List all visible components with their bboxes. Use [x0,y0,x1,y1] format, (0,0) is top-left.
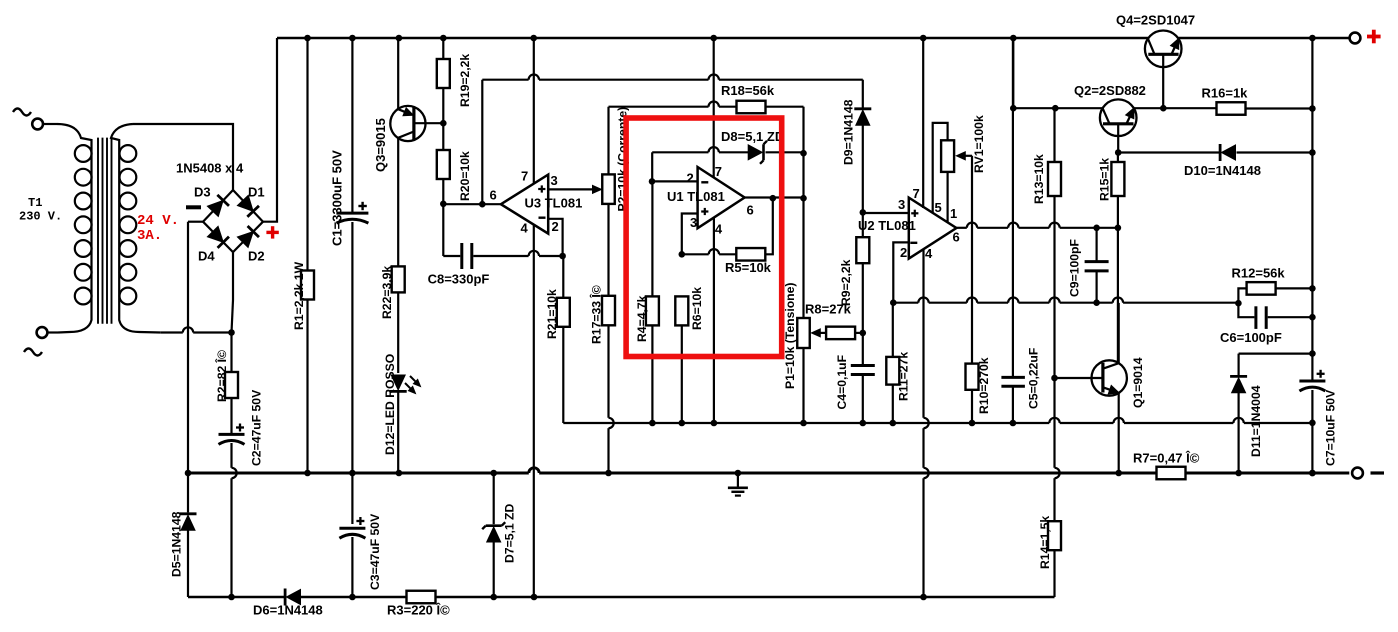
junction D10 / + rail [1309,149,1316,156]
label R15=1k [1098,158,1112,201]
junction 0V rail / Q1 emitter [1115,470,1122,477]
bridge minus mark [186,205,201,209]
capacitor C1 [336,38,368,473]
svg-text:4: 4 [715,222,723,237]
U3 pin 2 number [552,219,559,234]
diode D1 (bridge top-right) [233,190,263,222]
svg-text:5: 5 [935,200,942,215]
junction 0V rail / D7 [490,470,497,477]
junction C7 / sense wire [1309,420,1316,427]
label Q2=2SD882 [1074,83,1146,98]
svg-text:R18=56k: R18=56k [721,83,775,98]
wire U1 pin2 [652,180,698,182]
junction top rail / R19 [440,35,447,42]
ground symbol [728,473,748,496]
wire D8 left run [652,147,748,181]
label R20=10k [458,151,472,201]
label R8=27k [805,302,852,317]
U2 pin 6 number [953,230,960,245]
U1 pin 3 number [690,215,697,230]
transistor Q3 (9015) [390,38,443,266]
transistor Q4 (2SD1047) [1145,31,1182,109]
svg-text:1: 1 [950,206,957,221]
diode D6 (1N4148) [285,589,300,606]
junction top rail / R1 [304,35,311,42]
junction Q2 base / R15 [1115,149,1122,156]
label D7=5,1 ZD [503,504,517,563]
junction C6 / + rail [1309,314,1316,321]
junction sense rail / C5 [1010,420,1017,427]
label R14=1,5k [1038,516,1052,569]
capacitor C2 [219,424,245,598]
resistor R21 [557,256,570,423]
U2 pin 3 number [898,197,905,212]
wire secondary-top to bridge top [133,124,233,190]
wire P2 top to R18 left [609,101,737,106]
U1 pin 6 number [747,203,754,218]
svg-text:D3: D3 [194,185,211,200]
junction 0V rail / C7 [1309,470,1316,477]
label R19=2,2k [458,54,472,107]
label R4=4,7k [635,295,649,342]
junction top rail / Q2 line [1010,35,1017,42]
label D2 [248,249,265,264]
junction negative rail / C3 [349,594,356,601]
svg-text:C5=0,22uF: C5=0,22uF [1027,348,1041,409]
svg-text:D4: D4 [198,249,215,264]
capacitor C5 [1001,38,1025,423]
junction top rail / output line [1309,35,1316,42]
capacitor C6 [1238,303,1312,329]
label RV1=100k [972,115,986,173]
U2 pin 5 number [935,200,942,215]
transformer T1 secondary winding [111,124,161,333]
wire bridge left corner down to 0V rail [188,222,203,473]
svg-text:R2=82 Î©: R2=82 Î© [214,350,229,402]
junction 0V rail / C3 [349,470,356,477]
label C5=0,22uF [1027,348,1041,409]
junction D8 / feedback line [800,150,807,157]
junction R8 / R9 / C4 [860,330,867,337]
op-amp U3 (TL081, pointing left) [501,175,548,234]
resistor R13 [1048,108,1061,378]
label C7=10uF 50V [1324,389,1338,466]
svg-text:R13=10k: R13=10k [1032,154,1046,204]
svg-text:R11=27k: R11=27k [897,352,911,401]
svg-text:C1=3300uF 50V: C1=3300uF 50V [330,150,345,246]
label 230 V. [19,210,62,224]
U3 pin 6 number [490,188,497,203]
svg-text:D7=5,1 ZD: D7=5,1 ZD [503,504,517,563]
junction U2 out / C9 [1093,225,1100,232]
capacitor C7 [1299,370,1325,473]
wire U3 output to D9 (top run) [482,74,863,108]
junction sense rail / P1 [800,420,807,427]
capacitor C3 [339,473,365,597]
svg-text:C7=10uF 50V: C7=10uF 50V [1324,389,1338,466]
junction feedback / R12 / C6 [1235,300,1242,307]
label C8=330pF [428,272,490,287]
junction secondary-bottom / bridge [228,329,235,336]
input terminal bottom (AC) [24,327,58,355]
svg-text:3A.: 3A. [137,228,162,244]
wire U3 pin3 to P2 wiper [548,185,601,193]
capacitor C8 [443,243,562,269]
wire Q2 emitter to Q4 base node [1134,107,1217,109]
svg-text:R5=10k: R5=10k [725,260,772,275]
label R1=2,2k 1W [292,261,306,330]
resistor R17 [602,296,615,473]
label R3=220 Î© [387,603,450,618]
wire Q2 collector rail [1013,107,1102,109]
wire 0V rail [188,468,1349,473]
wire U2 pin5 bracket [933,123,948,213]
svg-text:R10=270k: R10=270k [977,357,991,414]
label D10=1N4148 [1184,163,1261,178]
junction R5 / pin3 branch [679,251,686,258]
junction C9 / feedback wire [1093,299,1100,306]
resistor R8 [811,327,863,340]
label R22=3,9k [380,266,394,319]
svg-text:C3=47uF 50V: C3=47uF 50V [368,513,382,590]
svg-text:C2=47uF 50V: C2=47uF 50V [250,389,264,466]
junction top rail / U1 pin7 [710,35,717,42]
diode D3 (bridge top-left) [203,190,233,222]
label D3 [194,185,211,200]
diode D2 (bridge bottom-right) [233,222,263,252]
wire D11 branch [1239,354,1313,375]
op-amp U2 (TL081) [909,198,957,259]
wire Q2 base run [1118,151,1220,153]
label R9=2,2k [839,259,853,306]
label R17=33 Î© [589,285,604,344]
svg-text:D8=5,1 ZD: D8=5,1 ZD [721,129,784,144]
junction D9 / R9 / U2 pin3 [860,209,867,216]
wire top rail (+ supply) [277,37,1349,40]
input terminal top (AC) [13,109,57,130]
label D12=LED ROSSO [383,354,397,455]
label 3A. (red) [137,228,162,244]
svg-text:4: 4 [521,221,529,236]
label R10=270k [977,357,991,414]
label D8=5,1 ZD [721,129,784,144]
wire U1 pin7 to top rail [713,38,715,178]
label Q4=2SD1047 [1116,13,1195,28]
wire negative rail (bottom) [188,596,1055,599]
junction U1 out / P1 feedback [800,195,807,202]
junction U2 out / R15 [1115,225,1122,232]
junction Q4 base / Q2 emitter / R16 [1160,105,1167,112]
transformer T1 primary winding [57,124,92,333]
zener diode D8 (5,1 ZD) [748,141,803,164]
junction C7 line / 0V rail [1309,470,1316,477]
junction negative rail / C2 [228,594,235,601]
svg-text:24 V.: 24 V. [137,213,179,229]
svg-text:R12=56k: R12=56k [1232,266,1286,281]
label D6=1N4148 [253,603,323,618]
potentiometer P1 (Tensione) [797,318,810,423]
transistor Q1 (9014) [1055,360,1127,395]
diode D4 (bridge bottom-left) [203,222,233,252]
junction Q3 base / R19 / R20 [440,120,447,127]
junction sense rail / R6 [679,420,686,427]
diode D5 (1N4148) [180,473,197,597]
svg-text:2: 2 [687,171,694,186]
junction negative rail / U2 pin4 [920,594,927,601]
U2 pin 2 number [900,245,907,260]
label R2=82 Î© [214,350,229,402]
svg-text:D1: D1 [248,185,265,200]
output terminal - (bottom right) [1352,468,1384,479]
U3 pin 4 number [521,221,529,236]
trimmer RV1 (100k) [941,140,954,222]
svg-text:2: 2 [552,219,559,234]
svg-text:R15=1k: R15=1k [1098,158,1112,201]
U1 pin 2 number [687,171,694,186]
svg-text:U2 TL081: U2 TL081 [858,218,916,233]
wire Q1 collector up [1118,303,1120,363]
label D5=1N4148 [170,511,184,577]
label R6=10k [690,287,704,330]
svg-text:D5=1N4148: D5=1N4148 [170,511,184,577]
label P2=10k (Corrente) [616,107,630,212]
label D4 [198,249,215,264]
diode D10 (1N4148) [1220,144,1312,161]
svg-text:R14=1,5k: R14=1,5k [1038,516,1052,569]
junction R12 / + rail [1309,285,1316,292]
junction 0V rail / D12 [396,470,403,477]
svg-text:P1=10k (Tensione): P1=10k (Tensione) [783,283,797,389]
svg-text:6: 6 [953,230,960,245]
wire sense rail (y=423) [563,418,1312,423]
junction top rail / U3 pin7 [530,35,537,42]
resistor R10 [966,364,979,423]
resistor R7 [1157,467,1186,480]
wire secondary-bottom [161,327,232,332]
svg-text:Q3=9015: Q3=9015 [373,118,388,172]
resistor R22 [392,266,405,373]
U2 pin 7 number [913,186,920,201]
label 24 V. (red) [137,213,179,229]
svg-text:7: 7 [715,164,722,179]
wire U1 pin3 [682,214,698,255]
diode D11 (1N4004) [1230,376,1247,473]
resistor R3 [407,591,436,604]
junction R16 / + rail [1309,105,1316,112]
wire U2 pin4 down to negative wire [924,249,929,597]
svg-text:U3 TL081: U3 TL081 [525,196,583,211]
wire top rail to Q2 collector [1012,38,1014,108]
svg-text:Q4=2SD1047: Q4=2SD1047 [1116,13,1195,28]
wire feedback to P1 top [802,153,804,318]
wire Q1 emitter down [1118,393,1120,473]
wire inverting feedback run (y=302.7) [893,298,1238,303]
svg-text:D2: D2 [248,249,265,264]
junction Q2 collector rail / R13 [1052,105,1059,112]
svg-text:Q2=2SD882: Q2=2SD882 [1074,83,1146,98]
wire R20 bottom to C8 corner [442,204,444,256]
label + output (red) [1367,30,1381,44]
junction top rail / Q3 [396,35,403,42]
svg-text:7: 7 [913,186,920,201]
label U2 TL081 [858,218,916,233]
label C2=47uF 50V [250,389,264,466]
svg-text:D9=1N4148: D9=1N4148 [842,99,856,165]
junction 0V rail / ground [735,470,742,477]
label R12=56k [1232,266,1286,281]
wire U1 pin4 down [713,218,715,423]
U2 pin 1 number [950,206,957,221]
output terminal + (top right) [1350,33,1361,44]
label R11=27k [897,352,911,401]
svg-text:R1=2,2k 1W: R1=2,2k 1W [292,261,306,330]
junction sense rail / R11 [890,420,897,427]
label D1 [248,185,265,200]
label R5=10k [725,260,772,275]
label R18=56k [721,83,775,98]
junction U3 output riser [479,201,486,208]
junction U1 out / R5 [770,195,777,202]
label C9=100pF [1068,239,1082,297]
resistor R9 [856,212,869,333]
label C6=100pF [1220,330,1282,345]
label R7=0,47 Î© [1133,451,1200,466]
svg-text:R19=2,2k: R19=2,2k [458,54,472,107]
svg-text:R6=10k: R6=10k [690,287,704,330]
svg-text:R7=0,47 Î©: R7=0,47 Î© [1133,451,1200,466]
svg-text:2: 2 [900,245,907,260]
op-amp U1 (TL081) [698,167,745,228]
wire RV1 wiper down to R10 [971,156,973,364]
svg-text:R17=33 Î©: R17=33 Î© [589,285,604,344]
label Q3=9015 [373,118,388,172]
bridge plus mark (red) [266,226,278,238]
resistor R16 [1217,102,1313,115]
junction top rail / U2 pin7 [920,35,927,42]
junction negative rail / U3 pin4 [531,594,538,601]
svg-text:C8=330pF: C8=330pF [428,272,490,287]
svg-text:D12=LED ROSSO: D12=LED ROSSO [383,354,397,455]
svg-text:3: 3 [690,215,697,230]
svg-text:3: 3 [551,173,558,188]
label D11=1N4004 [1249,385,1263,457]
svg-text:R4=4,7k: R4=4,7k [635,295,649,342]
svg-text:D10=1N4148: D10=1N4148 [1184,163,1261,178]
svg-text:C9=100pF: C9=100pF [1068,239,1082,297]
svg-text:R16=1k: R16=1k [1202,86,1249,101]
U1 pin 7 number [715,164,722,179]
svg-text:230 V.: 230 V. [19,210,62,224]
resistor R14 [1048,378,1061,597]
label C1=3300uF 50V [330,150,345,246]
wire RV1 wiper [956,152,972,160]
junction Q1 base / R13 / R14 [1051,375,1058,382]
svg-text:R3=220 Î©: R3=220 Î© [387,603,450,618]
resistor R19 [437,38,450,123]
label R21=10k [545,289,559,339]
junction 0V rail / bridge minus [185,470,192,477]
junction sense rail / R4 [649,420,656,427]
wire U3 pin7 to top rail [533,38,535,184]
resistor R2 [225,333,238,435]
wire + rail right (vertical) [1311,38,1313,381]
svg-text:6: 6 [490,188,497,203]
U2 pin 4 number [925,246,933,261]
label P1=10k (Tensione) [783,283,797,389]
svg-text:4: 4 [925,246,933,261]
junction 0V rail / D11 [1235,470,1242,477]
junction U1 pin2 / R4 / D8 branch [649,178,656,185]
junction R20 / U3 output wire [440,201,447,208]
resistor R6 [675,296,688,423]
label C4=0,1uF [835,355,849,410]
svg-text:R9=2,2k: R9=2,2k [839,259,853,306]
svg-text:U1 TL081: U1 TL081 [667,189,725,204]
capacitor C9 [1085,228,1109,303]
diode D9 (1N4148) [854,109,871,213]
wire bridge right corner to top rail [263,38,277,222]
junction top rail / C1 [349,35,356,42]
wire U1 output [745,196,806,198]
svg-text:C6=100pF: C6=100pF [1220,330,1282,345]
junction D11 wire / + rail [1309,350,1316,357]
red selection box [626,118,782,357]
junction negative rail / D7 [490,594,497,601]
wire U3 pin4 down to negative wire [533,225,535,598]
label U3 TL081 [525,196,583,211]
label D9=1N4148 [842,99,856,165]
svg-text:3: 3 [898,197,905,212]
U3 pin 7 number [521,169,528,184]
svg-text:C4=0,1uF: C4=0,1uF [835,355,849,410]
diode D7 (5,1 ZD) [482,473,505,597]
label Q1=9014 [1131,357,1145,408]
junction sense rail / U1 pin4 [711,420,718,427]
svg-text:T1: T1 [28,196,42,210]
label T1 [28,196,42,210]
wire U2 pin2 [893,242,909,302]
resistor R1 [301,38,314,473]
U3 pin 3 number [551,173,558,188]
resistor R18 [737,101,804,153]
junction R17 bottom / 0V rail [605,470,612,477]
transistor Q2 (2SD882) [1100,99,1137,152]
junction sense rail / R10 [969,420,976,427]
label R16=1k [1202,86,1249,101]
label U1 TL081 [667,189,725,204]
junction U3 pin2 / C8 / R21 [559,253,566,260]
resistor R20 [437,123,450,204]
junction sense rail / C4 [860,420,867,427]
wire U2 pin3 [863,212,909,214]
svg-text:D6=1N4148: D6=1N4148 [253,603,323,618]
junction U2 pin2 / R11 / feedback wire [890,299,897,306]
LED D12 [390,375,421,473]
resistor R5 [682,198,773,260]
svg-text:Q1=9014: Q1=9014 [1131,357,1145,408]
U1 pin 4 number [715,222,723,237]
svg-text:6: 6 [747,203,754,218]
svg-text:R22=3,9k: R22=3,9k [380,266,394,319]
wire U3 output (pin 6) [443,80,501,205]
transformer T1 core [98,138,112,324]
resistor R11 [886,303,899,423]
resistor R4 [646,181,659,423]
junction Q2 collector line [1010,105,1017,112]
svg-text:R20=10k: R20=10k [458,151,472,201]
potentiometer P2 (Corrente) [602,107,615,296]
capacitor C4 [851,333,875,423]
